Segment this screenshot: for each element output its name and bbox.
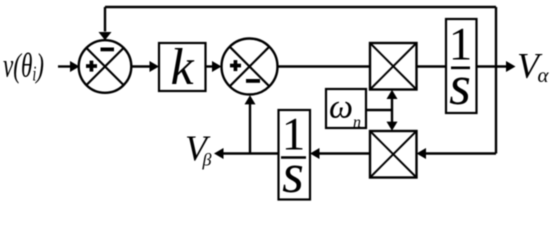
svg-text:k: k — [170, 39, 194, 96]
svg-text:n: n — [353, 114, 361, 131]
output label V_beta — [185, 128, 212, 170]
sign plus (S2 left input) — [230, 60, 241, 71]
wire: k to S2 — [206, 61, 222, 72]
wire: M2 to integrator beta (arrow left) — [310, 148, 370, 159]
wire: input arrow into S1 — [58, 61, 80, 72]
svg-text:α: α — [538, 63, 550, 87]
wire: junction vertical, arrow up into M1, arrow down into M2 — [387, 90, 398, 131]
wire: S1 to gain k — [131, 61, 159, 72]
wire: M1 to integrator alpha — [417, 65, 447, 67]
wire: integrator beta to output V_beta (arrow left) — [214, 148, 279, 159]
wire: integrator alpha to output V_alpha — [477, 61, 516, 72]
gain block k — [159, 39, 206, 96]
feedback wire: node at (496,66.5) up right side — [495, 7, 497, 67]
feedback wire: bottom run into M2 right side (arrow) — [417, 148, 497, 159]
feedback wire: node down right side to bottom row — [495, 67, 497, 154]
block omega_n — [326, 89, 366, 132]
sign minus (S1 top input) — [101, 48, 115, 52]
svg-text:β: β — [202, 150, 212, 170]
svg-text:ω: ω — [329, 89, 353, 126]
multiplier M2 (bottom) — [370, 131, 417, 178]
feedback wire: top horizontal run — [105, 6, 496, 8]
integrator block 1/s (alpha) — [446, 19, 477, 118]
svg-text:s: s — [282, 143, 304, 205]
wire: omega_n to junction — [366, 109, 392, 111]
sign plus (S1 left input) — [86, 61, 97, 72]
wire: S2 to multiplier M1 — [278, 65, 371, 67]
sign minus (S2 bottom input) — [246, 79, 260, 83]
multiplier M1 (top) — [370, 43, 417, 90]
integrator block 1/s (beta) — [279, 109, 311, 206]
summing junction S2 — [222, 39, 278, 95]
summing junction S1 — [79, 40, 132, 93]
output label V_alpha — [517, 46, 550, 88]
input label v(theta_i) — [3, 48, 44, 86]
svg-text:s: s — [449, 55, 471, 117]
feedback wire: V_beta line up into S2 bottom (arrow) — [245, 95, 256, 153]
feedback wire: drop down into S1 top (arrow) — [99, 7, 112, 40]
svg-text:v(θi): v(θi) — [3, 48, 44, 86]
